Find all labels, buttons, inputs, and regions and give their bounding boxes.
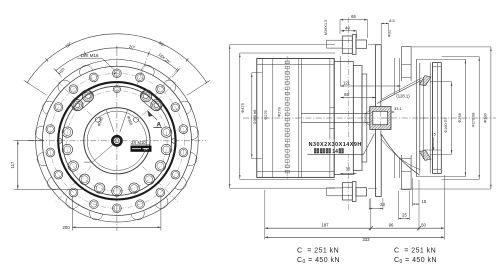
dimension 200 horizontal (72, 226, 160, 228)
dim 121 (340, 85, 400, 87)
bell cone upper outer line (377, 81, 421, 104)
dim 40 top (341, 30, 357, 32)
output plate 2 (353, 66, 362, 171)
dimension 117 vertical (17, 140, 19, 189)
dim phi330 right (490, 47, 492, 189)
dim 23 bottom (369, 207, 383, 209)
svg-text:40: 40 (345, 25, 350, 30)
svg-text:Φ270 h8: Φ270 h8 (472, 113, 476, 128)
housing body outline (257, 59, 334, 178)
flange outer scalloped rim circle (36, 60, 199, 223)
svg-text:C = 251 kN: C = 251 kN (394, 248, 436, 255)
radial dash lines at 20 and 40 deg (137, 48, 151, 87)
svg-text:C = 251 kN: C = 251 kN (297, 248, 339, 255)
left dim extension frame outer (229, 45, 231, 189)
bolt circle (pitch) for 18X M16 (49, 73, 184, 208)
bell cone lower outer curve (381, 134, 420, 175)
18X M16 tapped holes (113, 69, 122, 78)
svg-text:Φ330: Φ330 (483, 112, 488, 122)
output plate 1 (334, 62, 353, 175)
svg-text:C0 = 450 kN: C0 = 450 kN (297, 257, 340, 265)
bottom dim 333 (265, 236, 445, 238)
plug top tip (356, 40, 367, 48)
angular dimension inner arc (56, 48, 178, 71)
hub leader elbow (84, 145, 113, 162)
datum flag A (148, 111, 153, 117)
dim 25 bottom (399, 218, 410, 220)
svg-text:Φ276: Φ276 (264, 110, 268, 119)
plug vertical centerline (348, 17, 350, 212)
svg-text:8.5: 8.5 (389, 18, 394, 23)
spline label box (308, 140, 365, 154)
plug bottom tip (356, 188, 367, 196)
svg-text:96: 96 (389, 223, 394, 228)
dowel pin hole top (113, 86, 120, 93)
arc tick marks (26, 81, 29, 83)
output flange plate (433, 63, 442, 174)
dim 15 bottom (413, 203, 420, 205)
svg-text:Φ258: Φ258 (457, 113, 462, 123)
plug top hex body (342, 36, 352, 53)
gear mesh lines (330, 107, 334, 109)
flange bolt ladder bottom (401, 155, 403, 190)
svg-text:Φ160 G7: Φ160 G7 (444, 117, 448, 132)
svg-text:Φ475: Φ475 (240, 102, 245, 113)
label phi242 radial leader (106, 110, 114, 132)
socket head screws ring (lower) (161, 127, 171, 137)
cone step verticals (394, 58, 396, 94)
dim phi475 (239, 53, 241, 179)
housing internal vertical 3 (298, 59, 300, 178)
housing internal vertical 2 (272, 59, 274, 178)
screw pitch circle (67, 91, 168, 192)
small holes on inner circle (95, 117, 100, 122)
svg-text:15: 15 (431, 132, 436, 137)
svg-text:33.1: 33.1 (394, 106, 403, 111)
svg-text:117: 117 (10, 161, 15, 169)
housing internal vertical 1 (262, 59, 264, 178)
output flange hub vertical (416, 59, 418, 176)
dim 65 mid (340, 97, 375, 99)
dim phi390 h8 (251, 73, 253, 159)
housing inner top line (257, 63, 334, 65)
dim phi258 right (464, 59, 466, 176)
angular dimension outer arc (27, 34, 206, 83)
housing internal vertical 4 (300, 59, 302, 178)
svg-text:M20X1.5: M20X1.5 (323, 20, 328, 36)
svg-text:200: 200 (62, 225, 70, 230)
spline hub bore (373, 111, 388, 124)
svg-text:333: 333 (362, 237, 370, 242)
inner circle 2 (87, 111, 146, 170)
hub vertical centerline (379, 101, 381, 136)
ring gear bolt strip (286, 56, 288, 180)
plug top flange disc (352, 35, 356, 55)
dim 8.5 top right (381, 22, 388, 24)
output spigot end faces (429, 63, 431, 174)
svg-text:N30X2X30X14X9H: N30X2X30X14X9H (309, 142, 362, 148)
left view diagonal centerlines (142, 79, 179, 116)
spline label underline and leader (308, 153, 364, 155)
retainer plates around upper screw pairs (70, 88, 96, 112)
bell cone white body (381, 78, 422, 175)
svg-text:Φ32: Φ32 (387, 30, 392, 37)
seal wedge top hatched (419, 76, 431, 86)
adapter plate tall (376, 45, 382, 197)
output flange inner faces (419, 63, 421, 173)
bell cone lower inner curve (381, 139, 420, 170)
svg-text:C0 = 450 kN: C0 = 450 kN (394, 257, 437, 265)
svg-text:65: 65 (351, 14, 356, 19)
output plate 3 stub (362, 74, 367, 162)
axis over bell (381, 117, 428, 119)
svg-text:50: 50 (421, 223, 426, 228)
upper hex socket screws (72, 100, 83, 111)
left view centerline horizontal (28, 140, 206, 142)
svg-text:18X M16: 18X M16 (80, 53, 99, 58)
svg-text:121: 121 (343, 80, 351, 85)
flange face circle (42, 66, 191, 215)
dim phi160 G7 right (451, 82, 453, 155)
spline hub hatched block (370, 107, 391, 130)
ring inside heavy circle (62, 86, 171, 195)
dim 30 bottom (340, 173, 356, 175)
input shaft lines (301, 113, 370, 115)
svg-text:2X M10: 2X M10 (131, 140, 146, 145)
housing internal vertical right (329, 59, 331, 178)
right view axis centerline (243, 117, 496, 119)
plug bottom hex body (342, 183, 352, 200)
dim phi270 h8 right (478, 57, 480, 180)
dim 65 top (340, 19, 368, 21)
svg-text:15: 15 (422, 199, 427, 204)
bell cone upper inner line (381, 78, 422, 100)
svg-text:65: 65 (344, 92, 349, 97)
center hub knurled ring (112, 136, 121, 145)
seal wedge bottom hatched (419, 150, 431, 160)
plug top threads (327, 39, 343, 41)
label phi300 radial leader (120, 110, 128, 132)
inner bore circle (84, 108, 150, 174)
svg-text:25: 25 (402, 213, 407, 218)
svg-text:187: 187 (321, 223, 329, 228)
plug bottom flange disc (352, 182, 356, 202)
svg-text:(128.1): (128.1) (396, 94, 410, 99)
svg-text:24: 24 (144, 148, 148, 152)
radial extension lines at arc ends (24, 80, 47, 95)
bottom dim row 187 96 50 (265, 227, 445, 229)
heavy inner ring (bearing housing) (58, 82, 175, 199)
side pin holes on heavy ring (172, 138, 177, 143)
svg-text:Φ278: Φ278 (277, 107, 282, 117)
rim scallop lobes (141, 65, 154, 75)
left view centerline vertical (116, 50, 118, 231)
svg-text:Φ390 h8: Φ390 h8 (253, 110, 257, 125)
svg-text:30: 30 (346, 167, 351, 172)
plug bottom threads (327, 187, 343, 189)
flange bolt ladder top (401, 47, 403, 82)
housing inner bottom line (257, 171, 334, 173)
